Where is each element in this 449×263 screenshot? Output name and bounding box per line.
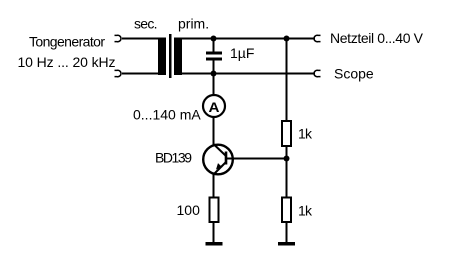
svg-text:Netzteil 0...40 V: Netzteil 0...40 V bbox=[330, 30, 424, 46]
svg-text:prim.: prim. bbox=[178, 16, 209, 32]
svg-text:A: A bbox=[209, 99, 220, 115]
svg-text:Scope: Scope bbox=[334, 66, 374, 82]
svg-text:1µF: 1µF bbox=[230, 45, 254, 61]
svg-text:100: 100 bbox=[177, 202, 201, 218]
svg-text:0...140 mA: 0...140 mA bbox=[133, 107, 201, 123]
svg-text:1k: 1k bbox=[298, 126, 313, 142]
svg-text:Tongenerator: Tongenerator bbox=[29, 34, 105, 50]
svg-text:1k: 1k bbox=[298, 203, 313, 219]
svg-text:BD139: BD139 bbox=[155, 150, 192, 166]
svg-text:sec.: sec. bbox=[134, 16, 158, 32]
svg-text:10 Hz ... 20 kHz: 10 Hz ... 20 kHz bbox=[18, 54, 116, 70]
